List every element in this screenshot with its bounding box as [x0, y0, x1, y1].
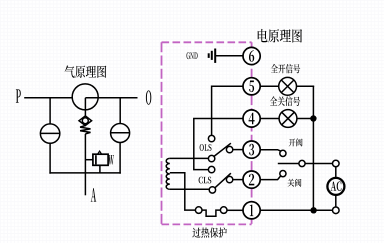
- label 过热保护: [192, 227, 226, 237]
- junction lamp bus at close lamp: [310, 115, 316, 121]
- ground symbol: [209, 49, 216, 63]
- wire coil bottom to CLS common: [170, 188, 209, 190]
- AC source: [327, 178, 344, 195]
- limit switch OLS label: [200, 144, 212, 151]
- node O (port label): [146, 90, 151, 104]
- wire OLS to terminal 3: [233, 149, 243, 151]
- terminal 6: [243, 47, 260, 64]
- wire terminal 5 to open lamp: [260, 85, 278, 87]
- AC bottom terminal: [333, 207, 340, 214]
- wire coil top to OLS common: [170, 157, 209, 159]
- title 电原理图: [258, 29, 302, 43]
- label 开阀: [289, 138, 303, 146]
- actuator boundary (magenta dashed box): [162, 42, 252, 224]
- wire right gauge to bottom rail: [119, 143, 121, 174]
- limit switch CLS: [208, 166, 232, 193]
- wire terminal 3 to open contact: [260, 150, 280, 151]
- spring below check valve: [80, 126, 90, 134]
- wire close lamp to lamp bus: [297, 118, 314, 120]
- lamp close signal: [279, 110, 297, 128]
- wire switch common to AC top terminal: [305, 163, 332, 165]
- wire regulator down to check valve: [84, 98, 86, 116]
- node A (port label): [91, 188, 96, 202]
- wire terminal 4 to close lamp: [260, 118, 279, 120]
- lamp open signal: [279, 77, 297, 95]
- terminal 4: [243, 110, 260, 127]
- terminal 2: [243, 171, 260, 188]
- wire left gauge to bottom rail: [49, 143, 51, 173]
- label GND: [187, 52, 198, 59]
- right branch wire down: [119, 98, 121, 124]
- control switch open/close (centre-off): [278, 150, 305, 176]
- solenoid box drain wire: [99, 165, 101, 173]
- thermal protector: [195, 207, 227, 216]
- wire terminal 5 to OLS upper contact: [212, 86, 243, 135]
- title 气原理图: [65, 65, 107, 78]
- label W: [108, 155, 114, 165]
- wire open lamp to lamp bus: [297, 85, 315, 87]
- main vertical wire to A: [84, 134, 86, 195]
- label 全开信号: [271, 64, 301, 73]
- gauge right (circle with bar): [111, 124, 130, 143]
- gauge left (circle with bar): [40, 124, 59, 143]
- wire thermal protector to terminal 1: [227, 209, 243, 211]
- label 全关信号: [270, 96, 300, 106]
- wire terminal 2 to close contact: [260, 176, 280, 180]
- limit switch OLS: [208, 135, 232, 161]
- terminal 1: [243, 202, 260, 219]
- motor winding (coil): [166, 158, 170, 189]
- terminal 3: [243, 141, 260, 158]
- terminal 5: [243, 78, 260, 95]
- solenoid valve box: [93, 151, 108, 165]
- limit switch CLS label: [199, 177, 212, 184]
- node P (port label): [16, 89, 21, 102]
- wire CLS to terminal 2: [233, 179, 243, 181]
- wire to solenoid box: [85, 159, 93, 161]
- AC top terminal: [333, 160, 340, 167]
- check valve (diamond with ball): [79, 116, 92, 126]
- wire AC source to AC bottom terminal: [335, 195, 337, 207]
- label 关阀: [288, 179, 302, 187]
- junction lamp bus at neutral: [310, 207, 316, 213]
- wire ground to terminal 6: [215, 55, 243, 57]
- neutral wire terminal 1 to AC bottom terminal: [260, 209, 332, 211]
- wire AC top terminal to AC source: [335, 167, 337, 178]
- wire coil centre tap to thermal protector: [170, 173, 196, 210]
- wire terminal 4 to CLS upper contact: [194, 119, 243, 170]
- left branch wire down: [49, 98, 51, 124]
- bottom rail: [49, 172, 120, 174]
- regulator circle (pneumatic valve body): [72, 84, 98, 110]
- wire P to regulator circle: [24, 97, 72, 99]
- wire regulator circle to O: [85, 97, 137, 99]
- lamp bus vertical wire: [312, 86, 314, 210]
